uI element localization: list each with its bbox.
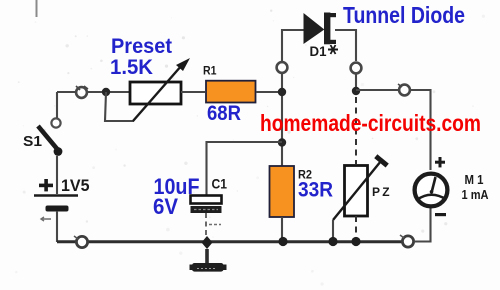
asterisk mark next to D1 bbox=[328, 45, 338, 54]
label M1 bbox=[465, 172, 484, 187]
label R2 bbox=[298, 168, 312, 182]
wire top-left horizontal to terminal bbox=[57, 91, 75, 93]
battery minus artifact bbox=[41, 217, 51, 221]
node rail junction R2 bbox=[278, 237, 287, 246]
label R1 bbox=[203, 64, 217, 78]
svg-text:1.5K: 1.5K bbox=[110, 55, 153, 79]
label 1.5K bbox=[110, 55, 153, 79]
label 68R value bbox=[207, 102, 241, 125]
wire wiper to rail bbox=[332, 220, 334, 241]
wire battery to rail bbox=[56, 211, 58, 242]
wire terminal X4 to meter top bbox=[411, 90, 431, 170]
potentiometer PZ body bbox=[345, 166, 368, 217]
svg-text:D1: D1 bbox=[310, 43, 327, 59]
node terminal X1 bbox=[76, 86, 88, 98]
wire junction D to meter branch bbox=[356, 89, 398, 91]
wire diode cathode to right branch bbox=[335, 30, 356, 61]
node rail junction wiper bbox=[328, 237, 337, 246]
potentiometer PZ wiper bbox=[333, 156, 387, 220]
node terminal X2 bbox=[277, 62, 288, 73]
meter M1 bbox=[415, 174, 448, 207]
node terminal X4 bbox=[398, 84, 410, 95]
wire bottom rail bbox=[57, 240, 402, 243]
node rail junction diamond bbox=[202, 236, 213, 249]
label C1 bbox=[212, 176, 228, 192]
label Tunnel Diode bbox=[343, 2, 465, 28]
node terminal X3 bbox=[351, 63, 362, 74]
svg-text:Tunnel Diode: Tunnel Diode bbox=[343, 2, 465, 28]
scan artifact top left bbox=[36, 0, 38, 17]
battery B1 bbox=[34, 196, 78, 212]
label 1 mA bbox=[462, 187, 490, 202]
label meter minus bbox=[435, 213, 446, 216]
svg-text:33R: 33R bbox=[298, 178, 333, 202]
label homemade-circuits.com bbox=[260, 110, 481, 136]
node terminal X6 bbox=[400, 235, 414, 247]
svg-text:homemade-circuits.com: homemade-circuits.com bbox=[260, 110, 481, 136]
label Preset bbox=[111, 34, 172, 58]
ground symbol bbox=[190, 263, 227, 272]
node junction B bbox=[278, 88, 286, 96]
preset P1 wiper arrow bbox=[133, 58, 190, 121]
diode D1 bbox=[304, 13, 336, 45]
resistor R1 body bbox=[206, 81, 256, 103]
label PZ bbox=[372, 185, 392, 199]
wire dashed PZ top bbox=[355, 97, 357, 164]
wire switch to battery bbox=[56, 156, 58, 194]
wire wiper loop bbox=[105, 92, 134, 121]
svg-text:M 1: M 1 bbox=[465, 172, 484, 187]
label 6V bbox=[153, 194, 178, 219]
svg-text:6V: 6V bbox=[153, 194, 178, 219]
label battery plus bbox=[39, 179, 53, 191]
node junction D bbox=[352, 87, 360, 95]
preset P1 body bbox=[130, 82, 181, 104]
resistor R2 body bbox=[270, 166, 295, 217]
wire C1 top branch bbox=[207, 142, 283, 195]
label 1V5 bbox=[61, 177, 90, 195]
wire R2 bottom bbox=[281, 217, 283, 241]
polarity artifact near C1 bbox=[209, 224, 221, 226]
wire vertical to R2 bbox=[281, 74, 283, 166]
node rail junction PZ bbox=[351, 237, 360, 246]
svg-text:R1: R1 bbox=[203, 64, 217, 78]
capacitor C1 bottom plate bbox=[191, 206, 222, 213]
label 10uF bbox=[154, 174, 200, 199]
wire left branch vertical with diode stub bbox=[282, 30, 304, 61]
svg-text:1V5: 1V5 bbox=[61, 177, 90, 195]
wire preset to R1 bbox=[181, 91, 205, 93]
node junction C bbox=[278, 138, 286, 146]
node terminal X5 bbox=[74, 236, 88, 248]
wire dashed PZ bottom bbox=[355, 216, 357, 236]
wire switch top corner bbox=[56, 92, 58, 118]
capacitor C1 top plate bbox=[191, 196, 222, 204]
wire R1 to node B bbox=[256, 91, 282, 93]
wire C1 bottom to rail bbox=[205, 213, 207, 237]
svg-text:S1: S1 bbox=[23, 133, 42, 150]
node junction A bbox=[102, 88, 110, 96]
svg-text:1 mA: 1 mA bbox=[462, 187, 490, 202]
wire terminal to preset bbox=[88, 91, 130, 93]
wire ground stub bbox=[205, 249, 209, 263]
svg-text:PZ: PZ bbox=[372, 185, 392, 199]
wire meter bottom bbox=[414, 208, 431, 242]
switch S1 bbox=[38, 118, 62, 156]
label 33R value bbox=[298, 178, 333, 202]
label S1 bbox=[23, 133, 42, 150]
wire terminal to junction D bbox=[355, 75, 357, 92]
label meter plus bbox=[435, 157, 445, 167]
label D1 bbox=[310, 43, 327, 59]
svg-text:C1: C1 bbox=[212, 176, 228, 192]
svg-text:68R: 68R bbox=[207, 102, 241, 125]
